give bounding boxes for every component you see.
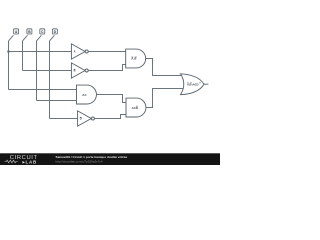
wire AND2 output to AND3 top input	[96, 95, 126, 103]
input pin D	[52, 29, 57, 34]
svg-text:A.B: A.B	[131, 57, 137, 61]
input pin C flag lead	[37, 35, 42, 41]
OR gate OR1	[181, 74, 205, 95]
wire B to inverter U2	[23, 70, 72, 72]
wire AND3 output to OR bottom input	[146, 89, 184, 108]
footer bar	[0, 153, 220, 165]
wire U1 output to AND1 top input	[88, 51, 126, 53]
input pin A	[14, 29, 19, 34]
junction node A	[7, 50, 10, 53]
AND gate AND3 (ACD bar)	[126, 98, 146, 117]
input pin C	[40, 29, 45, 34]
wire C to AND AC bottom input	[37, 100, 77, 102]
wire D vertical	[49, 41, 51, 119]
svg-text:A.B+ACD: A.B+ACD	[187, 82, 198, 86]
input pin B	[27, 29, 32, 34]
svg-text:http://circuitlab.com/c/7p526a: http://circuitlab.com/c/7p526a2s7c4	[56, 159, 103, 163]
wire A to AND AC top input	[9, 89, 77, 91]
svg-text:▸LAB: ▸LAB	[22, 160, 38, 165]
AND gate AND2 (AC)	[77, 85, 97, 104]
inverter U1 (A bar)	[71, 44, 88, 59]
wire C vertical	[36, 41, 38, 101]
input pin D flag lead	[50, 35, 55, 41]
wire U2 output to AND1 bottom input	[88, 65, 126, 71]
wire A vertical	[8, 41, 10, 90]
svg-text:ACD: ACD	[132, 106, 139, 110]
inverter U3 (D bar)	[78, 111, 95, 126]
inverter U2 (B bar)	[71, 63, 88, 78]
wire OR output stub	[204, 83, 208, 85]
footer logo CIRCUIT LAB	[5, 155, 38, 164]
wire D to inverter U3	[50, 118, 78, 120]
input pin B flag lead	[23, 35, 28, 41]
AND gate AND1 (A.B)	[126, 49, 146, 68]
wire A to inverter U1	[9, 51, 72, 53]
wire U3 output to AND3 bottom input	[94, 115, 126, 119]
wire AND1 output to OR top input	[146, 59, 184, 76]
input pin A flag lead	[9, 35, 14, 41]
svg-text:Ā: Ā	[74, 50, 76, 54]
wire B vertical	[22, 41, 24, 71]
